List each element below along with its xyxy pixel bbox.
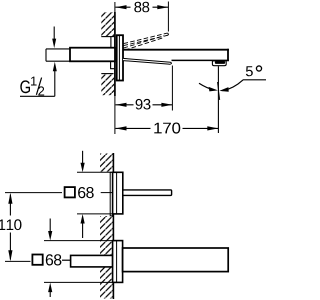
5 degree leader underline [243, 79, 266, 81]
wall face line (top view) [114, 2, 116, 12]
in-wall body upper edge [110, 37, 112, 48]
dim 93 line [116, 104, 173, 106]
spout supply pipe behind wall [71, 255, 113, 267]
valve centerline right [101, 192, 113, 194]
dim 93 right extension [171, 66, 173, 111]
handle lever (plan) [123, 190, 172, 196]
spout body (plan) [123, 248, 229, 272]
G1/2 thread tube [46, 49, 70, 61]
dim 88 line [116, 6, 169, 8]
spout 68 top arrow [49, 219, 51, 232]
spout esc bottom extension [44, 281, 113, 283]
aerator slot [215, 61, 225, 64]
valve 68 top arrow [82, 151, 84, 163]
tilted spout dashed line 3 [124, 36, 164, 48]
spout end cap [227, 49, 229, 61]
spout top edge [123, 49, 229, 51]
valve esc bottom extension [77, 213, 113, 215]
tilted spout dashed line 1 [124, 33, 168, 44]
wall hatching lower zone [101, 74, 114, 95]
wall hatching zone 3 [100, 267, 113, 298]
spout underside sliver [123, 58, 171, 64]
dim 88 right extension [167, 2, 169, 32]
spout escutcheon inner edge [116, 241, 118, 283]
G1/2 leader underline [20, 95, 55, 97]
valve 68 label [78, 187, 94, 198]
dim 93 text [136, 99, 151, 110]
dim 88 arrows [116, 5, 127, 9]
tilted spout dashed line 4 [125, 37, 164, 50]
valve 68 bottom arrow [82, 224, 84, 239]
valve in-wall body [110, 172, 112, 216]
dim 170 line [116, 127, 219, 129]
dim 110 arrows [8, 193, 12, 204]
valve square symbol [65, 187, 75, 197]
in-wall nut notch [111, 62, 115, 69]
dim 88 text [134, 2, 149, 13]
wall hatching upper zone [101, 12, 114, 37]
wall cutout bottom edge [101, 73, 113, 75]
dim 110 line [9, 195, 11, 260]
spout esc top extension [44, 240, 113, 242]
supply coupling body [70, 48, 115, 62]
aerator [212, 61, 226, 66]
wall face line (plan view) [112, 153, 114, 299]
G1/2 label [20, 80, 30, 93]
wall hatching zone 1 [100, 154, 113, 172]
G1/2 dimension lower arrow [54, 71, 56, 97]
dim 110 bottom extension [5, 260, 31, 262]
valve escutcheon inner edge [116, 172, 118, 214]
dim 110 text [0, 219, 21, 230]
dim 170 text [154, 123, 180, 134]
5 degree left arc [199, 83, 214, 90]
spout escutcheon (plan) [113, 241, 123, 283]
spout 68 leader [62, 259, 71, 261]
dim 170 arrows [116, 126, 127, 130]
spout square symbol [32, 255, 42, 265]
valve esc top extension [77, 171, 113, 173]
spout 68 bottom arrow [49, 292, 51, 297]
flange escutcheon (side view) [117, 35, 123, 80]
flange inner edge [118, 36, 120, 81]
tilted spout end cap [168, 33, 169, 35]
spout bottom edge [172, 59, 229, 61]
tilted spout dashed line 2 [124, 35, 169, 46]
5 degree label [246, 66, 253, 76]
G1/2 dimension upper arrow [53, 27, 55, 40]
wall cutout top edge [101, 36, 114, 38]
valve escutcheon (plan) [113, 172, 123, 214]
5 degree right arc [223, 80, 244, 91]
stream / dim 170 right extension [217, 66, 219, 133]
valve centerline left [5, 192, 62, 194]
wall hatching zone 2 [100, 216, 113, 255]
spout 68 label [46, 254, 62, 265]
tilted stream second line [218, 82, 220, 100]
dim 93 arrows [116, 103, 127, 107]
